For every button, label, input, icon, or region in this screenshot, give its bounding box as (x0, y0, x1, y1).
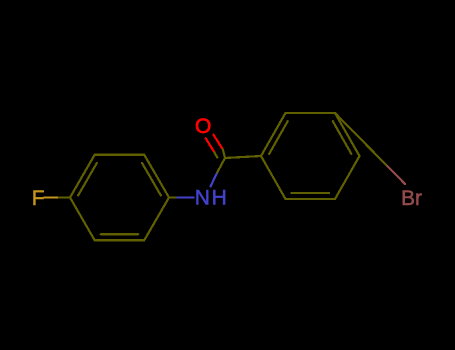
wire edge BR-BL bottom (95, 239, 145, 241)
benzene ring 2 outline (261, 113, 360, 199)
bond ring2-CH2 (335, 113, 370, 149)
svg-text:O: O (195, 115, 211, 138)
svg-text:F: F (32, 187, 45, 210)
wire edge TL-TR top (95, 154, 145, 156)
double bond inner line e1 (78, 163, 97, 195)
wire edge R-BR (144, 198, 169, 241)
bond ring1-N blue half (178, 196, 194, 198)
double bond inner line ring2 e5 bottom (292, 192, 330, 194)
svg-text:N: N (195, 187, 210, 210)
wire edge TR2-R2 (335, 113, 360, 156)
svg-text:H: H (212, 187, 227, 210)
C=O right line olive half (223, 149, 225, 158)
wire edge TL2-TR2 top (286, 112, 336, 114)
benzene ring 1 (4-fluorophenyl) outline (70, 155, 169, 241)
wire edge BR2-BL2 bottom (286, 198, 336, 200)
svg-text:Br: Br (401, 187, 422, 210)
double bond inner line e3 (142, 163, 161, 195)
bond N-C(=O) olive half (217, 158, 225, 172)
wire edge BL2-L2 (261, 156, 286, 199)
C=O right line red half (214, 135, 223, 150)
bond C(=O)-ring2 (225, 156, 261, 158)
double bond inner line ring2 e3 (333, 121, 352, 154)
bond N-C(=O) blue half (211, 172, 218, 186)
wire edge L2-TL2 (261, 113, 286, 156)
C=O left line olive half (214, 152, 217, 157)
bond ring1-N olive half (169, 196, 178, 198)
bond CH2-Br brick half (388, 166, 406, 184)
bond CH2-Br olive half (370, 149, 388, 167)
double bond inner line e5 bottom (101, 233, 139, 235)
wire edge TR-R (144, 155, 169, 198)
wire edge L-TL (70, 155, 95, 198)
C=O left line red half (206, 138, 215, 152)
wire edge R2-BR2 (335, 156, 360, 199)
bond F-C olive half (59, 196, 70, 198)
bond F-C gold half (45, 196, 60, 198)
wire edge BL-L (70, 198, 95, 241)
double bond inner line ring2 e1 (269, 121, 288, 154)
